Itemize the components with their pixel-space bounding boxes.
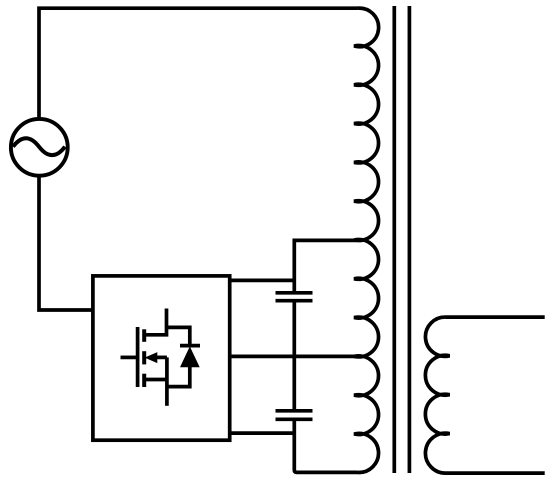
diode D1 anode branch [167, 367, 190, 387]
switch module box U1 [93, 276, 230, 440]
mosfet M1 drain lead and stub [146, 309, 167, 335]
mosfet M1 gate bar [136, 327, 140, 387]
diode D1 cathode bar [180, 344, 200, 348]
mosfet M1 channel bottom segment [142, 374, 146, 387]
wire: tap 2 from box U1 middle right to winding [230, 355, 357, 359]
inductor L1 primary winding (tapped) [354, 8, 379, 472]
wire: box U1 bottom right to rail [230, 431, 295, 435]
inductor L2 secondary winding [425, 317, 544, 473]
transformer core line left [392, 6, 396, 473]
mosfet M1 body arrow [145, 352, 158, 363]
mosfet M1 channel middle segment [142, 351, 146, 364]
AC source V1 circle [11, 119, 68, 176]
wire: AC source bottom to box U1 left [39, 176, 93, 310]
wire: tap 1 from rail to winding [294, 240, 357, 292]
mosfet M1 body lead [157, 356, 167, 360]
mosfet M1 channel top segment [142, 329, 146, 342]
AC source V1 sine [13, 138, 65, 155]
diode D1 triangle [180, 346, 200, 367]
wire: box U1 top right to rail [230, 279, 295, 283]
mosfet M1 gate lead [121, 356, 137, 360]
capacitor C1 bottom plate [276, 299, 313, 303]
capacitor C2 top plate [276, 409, 313, 413]
mosfet M1 source stub [165, 357, 169, 405]
wire top: AC source to primary winding [39, 8, 358, 119]
mosfet M1 source lead [146, 378, 167, 382]
wire bottom: winding bottom to C2 bottom rail [294, 419, 357, 472]
transformer core line right [408, 6, 412, 473]
capacitor C2 bottom plate [276, 417, 313, 421]
diode D1 top branch [167, 327, 190, 345]
wire: rail between C1 and C2 [292, 301, 296, 411]
capacitor C1 top plate [276, 291, 313, 295]
